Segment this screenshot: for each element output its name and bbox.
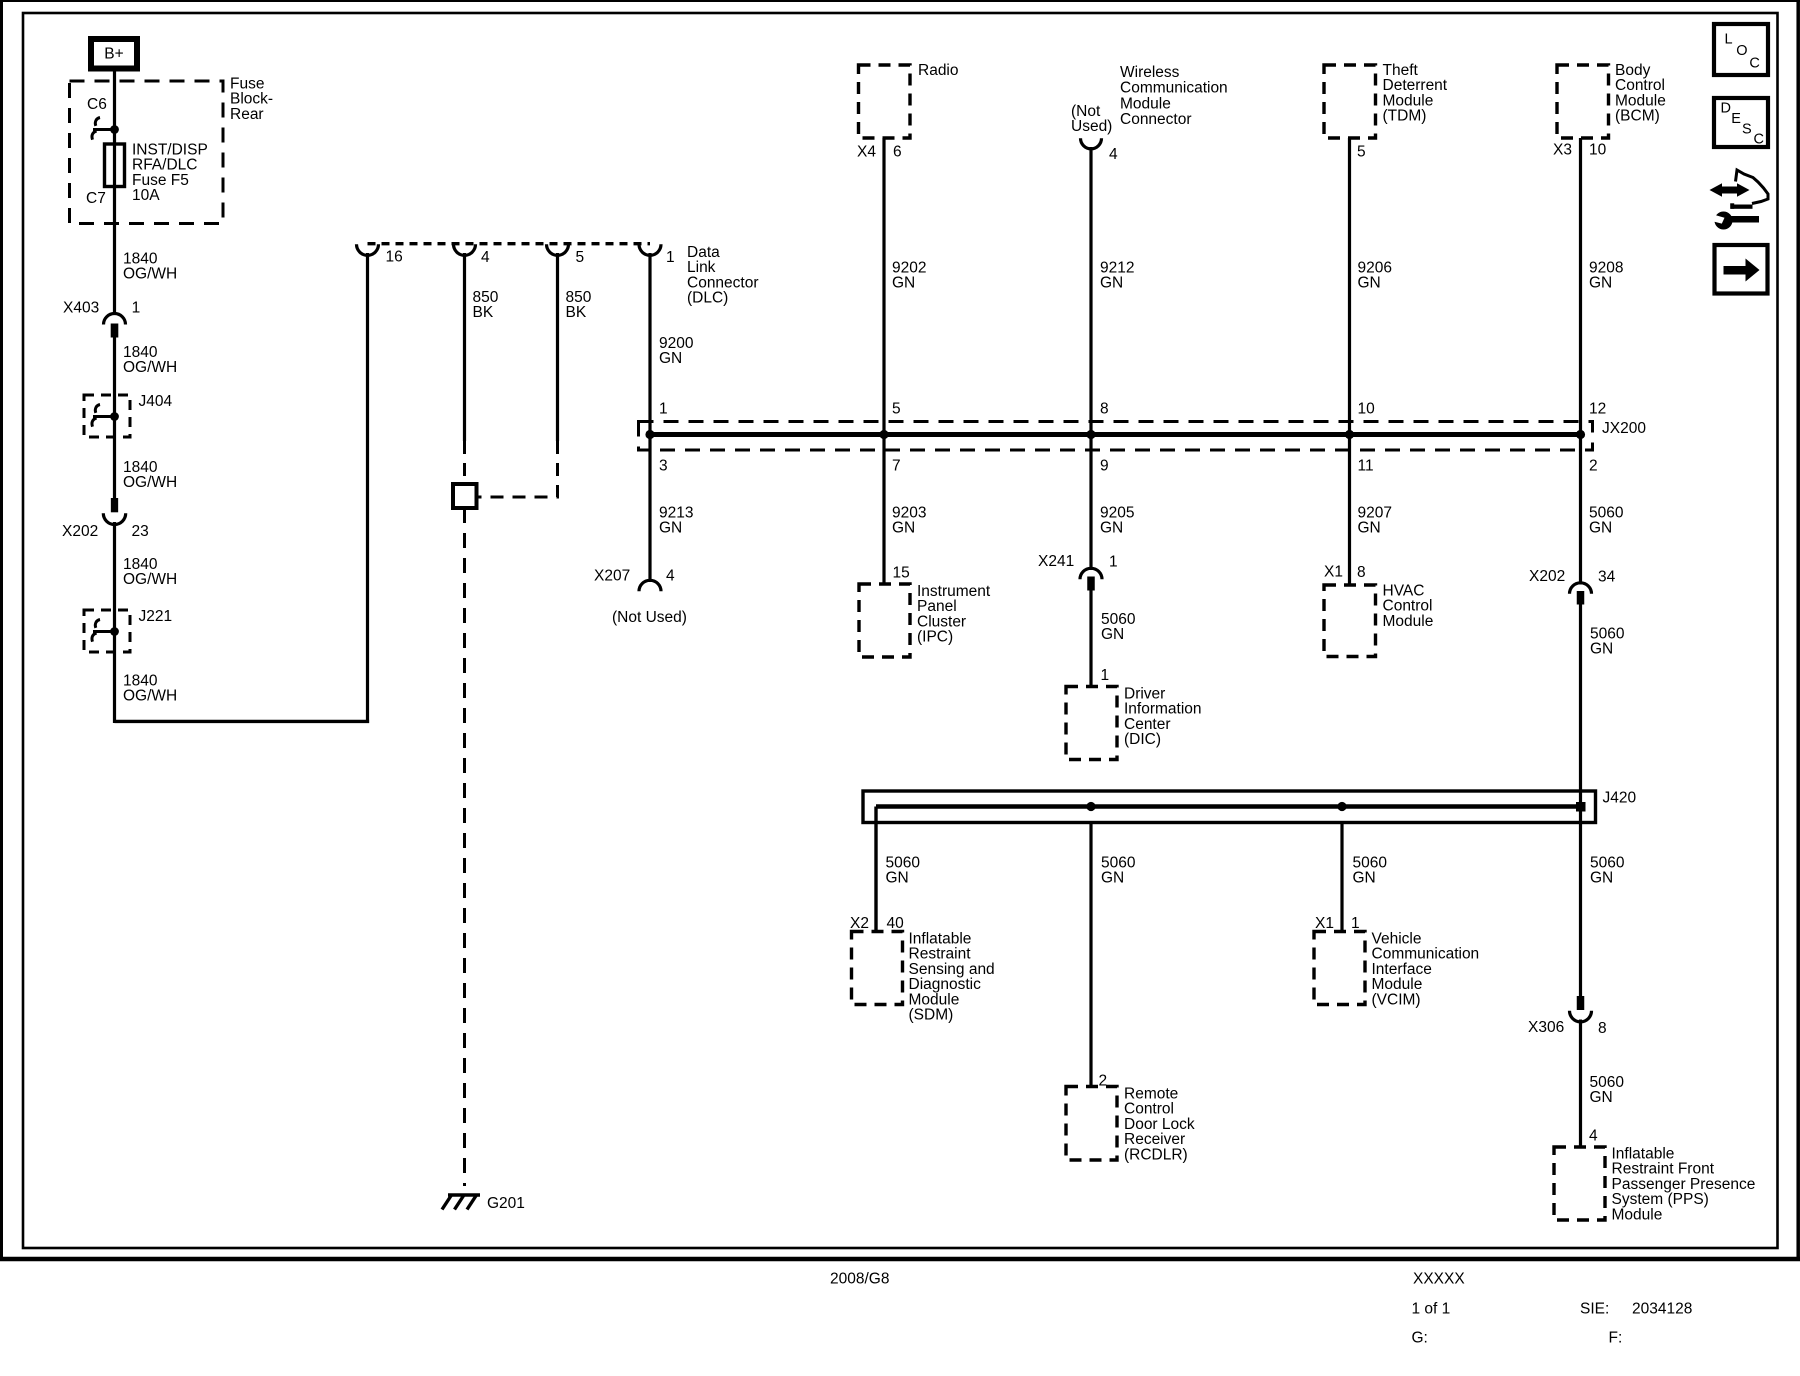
svg-text:4: 4 <box>666 568 675 585</box>
fuse block label <box>230 76 273 123</box>
svg-text:J404: J404 <box>139 393 173 410</box>
svg-text:7: 7 <box>892 458 901 475</box>
svg-text:J221: J221 <box>139 608 173 625</box>
inflatable restraint sensing and diagnostic module (SDM) <box>852 931 995 1024</box>
svg-text:Module: Module <box>1383 613 1434 630</box>
svg-text:Rear: Rear <box>230 106 264 123</box>
svg-text:B+: B+ <box>104 46 123 63</box>
svg-text:GN: GN <box>659 350 682 367</box>
splice block (ground splice) <box>453 484 477 508</box>
connector X403 pin 1 <box>63 300 140 338</box>
svg-text:GN: GN <box>1101 626 1124 643</box>
wireless communication module connector (not used) pin 4 <box>1071 103 1118 163</box>
junction J420/RCDLR <box>1086 802 1095 811</box>
svg-text:BK: BK <box>473 304 494 321</box>
svg-text:D: D <box>1721 101 1731 117</box>
radio connector X4 pin 6 <box>857 144 902 161</box>
footer title 2008/G8 <box>830 1271 889 1288</box>
svg-text:G:: G: <box>1412 1330 1428 1347</box>
svg-text:10A: 10A <box>132 187 160 204</box>
in-line connection C6 <box>92 118 119 140</box>
footer F: <box>1609 1330 1623 1347</box>
svg-text:GN: GN <box>1353 870 1376 887</box>
PPS pin 4 <box>1589 1128 1598 1145</box>
J420 internal bus <box>876 804 1581 809</box>
svg-text:2034128: 2034128 <box>1632 1301 1692 1318</box>
dashed ground branch from pin 5 <box>477 441 558 497</box>
junction at JX200 pin 12/2 <box>1576 430 1585 439</box>
svg-text:GN: GN <box>1358 520 1381 537</box>
svg-text:GN: GN <box>1590 641 1613 658</box>
svg-text:6: 6 <box>893 144 902 161</box>
svg-text:11: 11 <box>1358 458 1374 475</box>
connector C7 label <box>86 190 106 207</box>
svg-text:4: 4 <box>481 249 490 266</box>
SDM connector X2 pin 40 <box>850 915 904 932</box>
svg-text:F:: F: <box>1609 1330 1623 1347</box>
footer G: <box>1412 1330 1428 1347</box>
instrument panel cluster (IPC) dashed box <box>859 565 991 658</box>
driver information center (DIC) dashed box <box>1066 686 1202 760</box>
svg-text:O: O <box>1736 43 1747 59</box>
connector X207 pin 4 (not used) <box>594 568 687 627</box>
wire 9200 GN from DLC pin 1 <box>648 253 651 582</box>
splice J404 <box>84 393 172 437</box>
svg-text:Module: Module <box>1120 95 1171 112</box>
svg-text:OG/WH: OG/WH <box>123 359 177 376</box>
splice J221 <box>84 608 172 652</box>
svg-text:5: 5 <box>892 401 901 418</box>
svg-text:X241: X241 <box>1038 553 1074 570</box>
svg-text:40: 40 <box>887 915 905 932</box>
dashed wire to ground G201 <box>463 508 466 1186</box>
splice J420 shell <box>863 791 1596 823</box>
svg-text:OG/WH: OG/WH <box>123 266 177 283</box>
vehicle communication interface module (VCIM) <box>1314 931 1479 1009</box>
next-page arrow button <box>1715 245 1768 294</box>
svg-text:SIE:: SIE: <box>1580 1301 1609 1318</box>
svg-text:C: C <box>1749 56 1759 72</box>
VCIM connector X1 pin 1 <box>1315 915 1360 932</box>
svg-text:GN: GN <box>1101 870 1124 887</box>
BCM connector X3 pin 10 <box>1553 142 1607 159</box>
fuse F5 label <box>132 142 208 205</box>
DLC pin 4 terminal <box>454 244 491 266</box>
svg-text:Connector: Connector <box>1120 111 1192 128</box>
JX200 label <box>1602 420 1646 437</box>
svg-text:L: L <box>1725 31 1733 47</box>
svg-text:X4: X4 <box>857 144 876 161</box>
svg-text:GN: GN <box>1589 520 1612 537</box>
DESC button <box>1714 98 1768 148</box>
wire 5060 GN X306 to PPS <box>1579 1020 1582 1147</box>
svg-text:23: 23 <box>132 523 149 540</box>
svg-text:X403: X403 <box>63 300 99 317</box>
wire 9202 GN radio to JX200 <box>882 138 885 584</box>
svg-text:16: 16 <box>386 249 403 266</box>
svg-text:1: 1 <box>1101 667 1110 684</box>
svg-text:(TDM): (TDM) <box>1383 108 1427 125</box>
svg-text:15: 15 <box>893 565 910 582</box>
JX200 internal bus <box>650 432 1581 437</box>
JX200 pin numbers <box>659 401 1606 475</box>
svg-text:(IPC): (IPC) <box>917 629 953 646</box>
svg-text:G201: G201 <box>487 1195 525 1212</box>
svg-text:X207: X207 <box>594 568 630 585</box>
svg-text:2: 2 <box>1589 458 1598 475</box>
connector X241 pin 1 <box>1038 553 1118 591</box>
svg-text:1: 1 <box>659 401 668 418</box>
svg-text:1: 1 <box>1109 554 1118 571</box>
svg-text:(Not Used): (Not Used) <box>612 609 687 626</box>
svg-text:1 of 1: 1 of 1 <box>1412 1301 1451 1318</box>
svg-text:S: S <box>1742 121 1752 137</box>
svg-text:GN: GN <box>1100 275 1123 292</box>
vehicle outline icon <box>1730 170 1768 209</box>
wire run to DLC pin 16 <box>115 720 370 723</box>
footer SIE number <box>1580 1301 1692 1318</box>
theft deterrent module (TDM) dashed box <box>1324 62 1448 138</box>
wire 9207 GN label <box>1358 505 1392 537</box>
svg-text:J420: J420 <box>1603 790 1637 807</box>
wireless communication module connector label <box>1120 64 1228 128</box>
DLC pin 1 terminal <box>639 244 675 266</box>
fuse F5 INST/DISP RFA/DLC 10A <box>105 144 125 187</box>
wire 9213 GN label <box>659 505 693 537</box>
DLC pin 5 terminal <box>547 244 585 266</box>
footer page 1 of 1 <box>1412 1301 1451 1318</box>
svg-text:(VCIM): (VCIM) <box>1372 991 1421 1008</box>
svg-text:1: 1 <box>1351 915 1360 932</box>
svg-text:Communication: Communication <box>1120 80 1228 97</box>
DLC name label <box>687 244 759 307</box>
wire 9212 GN wireless to JX200 <box>1089 147 1092 570</box>
svg-text:C7: C7 <box>86 190 106 207</box>
svg-text:E: E <box>1731 111 1741 127</box>
data link connector (DLC) dashed shell <box>368 242 651 245</box>
wire 850 BK from pin 4 <box>463 253 466 441</box>
svg-text:GN: GN <box>1589 275 1612 292</box>
label 5060 GN right column below J420 <box>1590 855 1625 887</box>
wire 850 BK from pin 5 <box>556 253 559 441</box>
svg-text:9: 9 <box>1100 458 1109 475</box>
junction at JX200 pin 1/3 <box>645 430 654 439</box>
svg-text:(DIC): (DIC) <box>1124 731 1161 748</box>
svg-text:Used): Used) <box>1071 118 1112 135</box>
TDM pin 5 <box>1357 144 1366 161</box>
RCDLR pin 2 <box>1099 1073 1108 1090</box>
svg-text:GN: GN <box>892 520 915 537</box>
svg-text:OG/WH: OG/WH <box>123 474 177 491</box>
svg-text:X1: X1 <box>1324 564 1343 581</box>
svg-text:GN: GN <box>1100 520 1123 537</box>
wire 5060 GN X202 to J420 and X306 <box>1579 605 1582 997</box>
wire 5060 GN label (BCM branch) <box>1589 505 1624 537</box>
svg-text:4: 4 <box>1109 146 1118 163</box>
wrench icon <box>1712 212 1760 230</box>
svg-text:Module: Module <box>1612 1206 1663 1223</box>
wire 9206 GN TDM to JX200 <box>1348 138 1351 585</box>
wire 5060 GN to VCIM <box>1340 823 1343 932</box>
svg-text:8: 8 <box>1598 1020 1607 1037</box>
battery feed symbol B+ <box>91 39 137 69</box>
svg-text:10: 10 <box>1589 142 1607 159</box>
svg-text:(SDM): (SDM) <box>909 1007 954 1024</box>
svg-text:10: 10 <box>1358 401 1376 418</box>
junction J420/VCIM <box>1337 802 1346 811</box>
svg-text:X202: X202 <box>1529 568 1565 585</box>
svg-text:Radio: Radio <box>918 62 959 79</box>
junction J420 right end <box>1576 802 1586 812</box>
junction at JX200 pin 8/9 <box>1086 430 1095 439</box>
svg-text:JX200: JX200 <box>1602 420 1646 437</box>
body control module (BCM) dashed box <box>1557 62 1666 138</box>
junction at JX200 pin 5/7 <box>879 430 888 439</box>
dashed ground branch from pin 4 <box>463 441 466 484</box>
radio module dashed box <box>859 62 959 138</box>
svg-text:5: 5 <box>1357 144 1366 161</box>
connector C6 label <box>87 96 107 113</box>
wire 9203 GN label <box>892 505 926 537</box>
wire through fuse <box>113 144 116 315</box>
connector X306 pin 8 <box>1528 996 1607 1037</box>
remote control door lock receiver (RCDLR) <box>1066 1086 1195 1164</box>
svg-text:8: 8 <box>1357 564 1366 581</box>
svg-text:GN: GN <box>1590 870 1613 887</box>
svg-text:X2: X2 <box>850 915 869 932</box>
svg-text:34: 34 <box>1598 569 1616 586</box>
wire 5060 GN to RCDLR <box>1089 823 1092 1087</box>
svg-text:4: 4 <box>1589 1128 1598 1145</box>
wire 5060 GN X241 to DIC <box>1089 591 1092 687</box>
svg-text:C: C <box>1754 132 1764 148</box>
svg-text:GN: GN <box>892 275 915 292</box>
svg-text:X306: X306 <box>1528 1019 1564 1036</box>
svg-text:2: 2 <box>1099 1073 1108 1090</box>
svg-text:GN: GN <box>659 520 682 537</box>
DIC pin 1 <box>1101 667 1110 684</box>
splice pack JX200 dashed shell <box>639 422 1593 451</box>
connector X202 pin 34 <box>1529 568 1616 605</box>
svg-text:(RCDLR): (RCDLR) <box>1124 1146 1188 1163</box>
inflatable restraint front passenger presence system (PPS) module <box>1554 1146 1755 1224</box>
wire 1840 OG/WH label (below fuse block) <box>123 251 177 283</box>
J420 label <box>1603 790 1637 807</box>
HVAC control module dashed box, connector X1 pin 8 <box>1324 564 1433 657</box>
svg-text:XXXXX: XXXXX <box>1413 1271 1465 1288</box>
svg-text:GN: GN <box>1590 1089 1613 1106</box>
svg-text:BK: BK <box>566 304 587 321</box>
svg-text:Wireless: Wireless <box>1120 64 1180 81</box>
wire 9205 GN label <box>1100 505 1134 537</box>
svg-text:5: 5 <box>576 249 585 266</box>
diagnostic double-arrow icon <box>1710 183 1750 197</box>
svg-text:OG/WH: OG/WH <box>123 688 177 705</box>
wire from B+ into fuse block <box>113 72 116 145</box>
svg-text:8: 8 <box>1100 401 1109 418</box>
svg-text:C6: C6 <box>87 96 107 113</box>
wire 9208 GN BCM to JX200 <box>1579 138 1582 585</box>
svg-text:(BCM): (BCM) <box>1615 108 1660 125</box>
connector X202 pin 23 <box>62 498 149 540</box>
svg-text:(DLC): (DLC) <box>687 290 728 307</box>
wire 1840 OG/WH lower label <box>123 673 177 705</box>
svg-text:3: 3 <box>659 458 668 475</box>
svg-text:X1: X1 <box>1315 915 1334 932</box>
svg-text:GN: GN <box>886 870 909 887</box>
ground G201 <box>442 1195 525 1212</box>
svg-text:OG/WH: OG/WH <box>123 571 177 588</box>
wire 1840 OG/WH to J404 <box>113 338 116 499</box>
svg-text:GN: GN <box>1358 275 1381 292</box>
svg-text:12: 12 <box>1589 401 1606 418</box>
svg-text:X3: X3 <box>1553 142 1572 159</box>
svg-text:X202: X202 <box>62 523 98 540</box>
junction at JX200 pin 10/11 <box>1345 430 1354 439</box>
fuse block - rear dashed outline <box>70 81 224 224</box>
svg-text:2008/G8: 2008/G8 <box>830 1271 889 1288</box>
wire 1840 OG/WH to J221 <box>113 522 116 723</box>
svg-text:1: 1 <box>666 249 675 266</box>
DLC pin 16 terminal <box>357 244 403 265</box>
wire 1840 OG/WH to X202 <box>123 459 177 491</box>
LOC button <box>1714 24 1768 75</box>
footer cell number XXXXX <box>1413 1271 1465 1288</box>
svg-text:1: 1 <box>132 300 141 317</box>
wire 5060 GN to SDM <box>874 807 877 932</box>
